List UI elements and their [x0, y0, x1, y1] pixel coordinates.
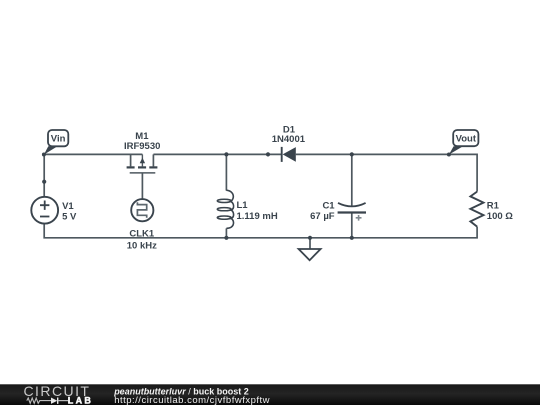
wire L1 bottom lead	[225, 228, 227, 237]
V1 value 5 V	[62, 211, 77, 222]
wire L1 top lead	[225, 154, 227, 190]
svg-text:67 µF: 67 µF	[310, 211, 335, 222]
wire top rail mid (M1 drain to D1 anode)	[153, 153, 281, 155]
inductor L1 coil	[217, 190, 233, 228]
footer bar	[0, 384, 540, 405]
svg-text:5 V: 5 V	[62, 211, 77, 222]
svg-text:R1: R1	[487, 200, 500, 211]
svg-text:10 kHz: 10 kHz	[127, 241, 157, 252]
svg-text:Vout: Vout	[456, 134, 477, 145]
C1 value 67 uF	[310, 211, 335, 222]
svg-text:L1: L1	[237, 200, 249, 211]
clock source CLK1	[131, 199, 153, 221]
svg-text:1N4001: 1N4001	[272, 134, 306, 145]
node D1 anode junction dot	[266, 152, 270, 156]
wire C1 bottom lead	[351, 213, 353, 238]
footer logo resistor-diode symbol	[27, 398, 68, 404]
wire bottom rail	[44, 224, 477, 238]
D1 value 1N4001	[272, 134, 306, 145]
wire top rail left (Vin corner to M1 source)	[44, 154, 142, 196]
node C1 top junction dot	[350, 152, 354, 156]
transistor M1 PMOS body: source stub	[130, 154, 132, 166]
M1 value IRF9530	[124, 141, 160, 152]
D1 label	[283, 124, 296, 135]
R1 label	[487, 200, 500, 211]
wire ground stub	[309, 238, 311, 249]
wire M1 gate lead to CLK1	[141, 173, 143, 199]
svg-text:IRF9530: IRF9530	[124, 141, 160, 152]
R1 value 100 ohm	[487, 211, 513, 222]
svg-text:100 Ω: 100 Ω	[487, 211, 513, 222]
node L1 bottom junction dot	[224, 236, 228, 240]
node Vin junction dot on left vertical wire	[42, 180, 46, 184]
transistor M1 bulk lead with arrow	[140, 154, 145, 166]
svg-text:C1: C1	[322, 200, 335, 211]
voltage source V1	[31, 197, 58, 224]
svg-text:1.119 mH: 1.119 mH	[237, 211, 278, 222]
CLK1 label	[129, 228, 155, 239]
node C1 bottom junction dot	[350, 236, 354, 240]
transistor M1 gate plate	[130, 172, 156, 174]
net flag Vout	[447, 130, 479, 157]
diode D1	[282, 147, 296, 162]
wire top rail right (D1 cathode to Vout corner and down to R1)	[296, 154, 477, 191]
C1 label	[322, 200, 335, 211]
capacitor C1	[338, 203, 366, 221]
L1 label	[237, 200, 249, 211]
svg-text:Vin: Vin	[51, 134, 66, 145]
footer credits line 2 url	[114, 395, 270, 405]
L1 value 1.119 mH	[237, 211, 278, 222]
footer logo LAB text	[68, 396, 93, 405]
svg-text:CLK1: CLK1	[129, 228, 155, 239]
transistor M1 drain stub	[152, 154, 154, 166]
svg-text:LAB: LAB	[68, 396, 93, 405]
footer logo CIRCUIT text	[24, 383, 91, 399]
CLK1 value 10 kHz	[127, 241, 157, 252]
footer credits line 1	[113, 387, 249, 397]
V1 label	[62, 201, 74, 212]
transistor M1 channel bars	[127, 166, 158, 168]
node L1 top junction dot	[224, 152, 228, 156]
resistor R1 zigzag	[470, 192, 483, 227]
node ground junction dot	[308, 236, 312, 240]
M1 label	[135, 131, 149, 142]
net flag Vin	[42, 130, 68, 157]
wire C1 top lead	[351, 154, 353, 206]
ground	[299, 249, 321, 260]
svg-text:http://circuitlab.com/cjvfbfwf: http://circuitlab.com/cjvfbfwfxpftw	[114, 395, 270, 405]
